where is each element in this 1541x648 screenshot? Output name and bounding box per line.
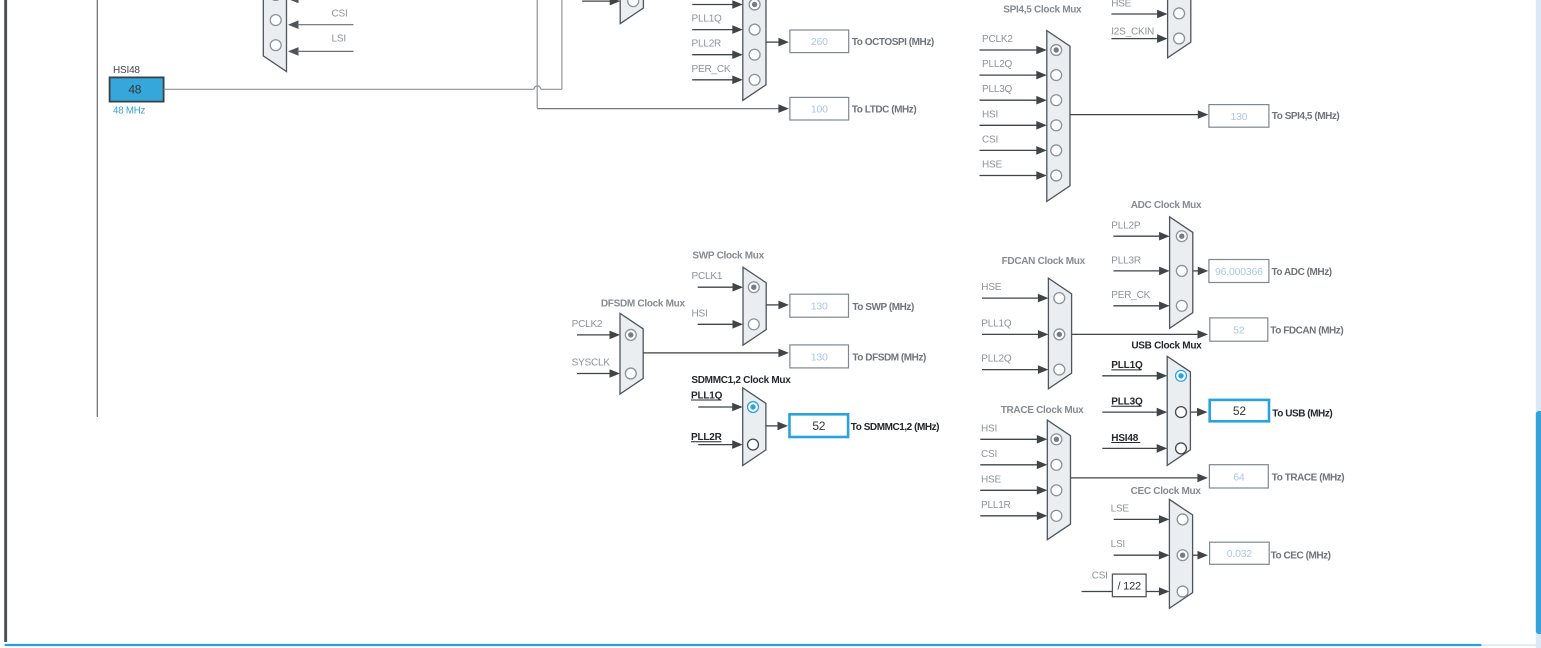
- svg-text:To LTDC (MHz): To LTDC (MHz): [852, 104, 916, 115]
- svg-text:HSE: HSE: [981, 282, 1001, 293]
- svg-text:48 MHz: 48 MHz: [113, 105, 146, 116]
- svg-text:To OCTOSPI (MHz): To OCTOSPI (MHz): [852, 37, 934, 48]
- svg-text:LSI: LSI: [1111, 539, 1125, 550]
- svg-text:SYSCLK: SYSCLK: [572, 358, 611, 369]
- svg-text:48: 48: [128, 82, 141, 96]
- svg-text:PLL3Q: PLL3Q: [982, 84, 1013, 95]
- svg-text:HSE: HSE: [981, 474, 1001, 485]
- svg-text:To CEC (MHz): To CEC (MHz): [1271, 550, 1331, 561]
- svg-text:PER_CK: PER_CK: [692, 64, 731, 75]
- svg-text:SDMMC1,2 Clock Mux: SDMMC1,2 Clock Mux: [691, 375, 791, 386]
- svg-text:52: 52: [812, 419, 825, 433]
- svg-text:LSI: LSI: [332, 34, 346, 45]
- svg-text:FDCAN Clock Mux: FDCAN Clock Mux: [1002, 256, 1086, 267]
- svg-text:SWP Clock Mux: SWP Clock Mux: [692, 250, 764, 261]
- svg-text:USB Clock Mux: USB Clock Mux: [1131, 341, 1202, 352]
- svg-text:130: 130: [811, 351, 828, 363]
- svg-text:100: 100: [811, 104, 828, 116]
- svg-text:PCLK2: PCLK2: [572, 319, 603, 330]
- svg-text:To USB (MHz): To USB (MHz): [1272, 408, 1332, 419]
- svg-text:52: 52: [1233, 324, 1245, 336]
- svg-text:PCLK1: PCLK1: [692, 271, 723, 282]
- svg-text:PLL3R: PLL3R: [1111, 255, 1141, 266]
- svg-text:HSI48: HSI48: [113, 65, 140, 76]
- svg-text:CSI: CSI: [1092, 571, 1108, 582]
- svg-text:PLL1Q: PLL1Q: [692, 14, 723, 25]
- svg-text:PLL1R: PLL1R: [981, 500, 1011, 511]
- svg-text:I2S_CKIN: I2S_CKIN: [1111, 26, 1154, 37]
- svg-text:PLL2Q: PLL2Q: [981, 354, 1012, 365]
- svg-text:To SWP (MHz): To SWP (MHz): [852, 302, 914, 313]
- svg-text:PLL1Q: PLL1Q: [981, 318, 1012, 329]
- svg-text:To TRACE (MHz): To TRACE (MHz): [1272, 473, 1345, 484]
- svg-text:To ADC (MHz): To ADC (MHz): [1272, 267, 1332, 278]
- svg-text:To SDMMC1,2 (MHz): To SDMMC1,2 (MHz): [851, 422, 939, 433]
- svg-text:260: 260: [811, 36, 828, 48]
- svg-text:CSI: CSI: [332, 8, 348, 19]
- svg-text:PCLK2: PCLK2: [982, 34, 1013, 45]
- svg-text:CSI: CSI: [982, 134, 998, 145]
- svg-text:HSI: HSI: [982, 109, 998, 120]
- svg-text:HSI: HSI: [692, 308, 708, 319]
- svg-text:SPI4,5 Clock Mux: SPI4,5 Clock Mux: [1003, 4, 1082, 15]
- svg-text:PER_CK: PER_CK: [1111, 290, 1150, 301]
- svg-text:CSI: CSI: [981, 449, 997, 460]
- svg-text:ADC Clock Mux: ADC Clock Mux: [1131, 200, 1202, 211]
- svg-text:DFSDM Clock Mux: DFSDM Clock Mux: [601, 298, 686, 309]
- svg-text:PLL2R: PLL2R: [692, 39, 722, 50]
- svg-text:52: 52: [1233, 404, 1246, 418]
- svg-text:PLL2Q: PLL2Q: [982, 59, 1013, 70]
- svg-text:/ 122: / 122: [1117, 580, 1141, 592]
- svg-text:0.032: 0.032: [1227, 548, 1253, 560]
- svg-text:130: 130: [811, 301, 828, 313]
- svg-text:CEC Clock Mux: CEC Clock Mux: [1131, 486, 1202, 497]
- svg-text:HSI: HSI: [981, 423, 997, 434]
- svg-text:PLL2P: PLL2P: [1111, 221, 1141, 232]
- svg-text:TRACE Clock Mux: TRACE Clock Mux: [1001, 405, 1084, 416]
- svg-text:To DFSDM (MHz): To DFSDM (MHz): [852, 352, 926, 363]
- svg-text:To FDCAN (MHz): To FDCAN (MHz): [1270, 326, 1343, 337]
- svg-text:To SPI4,5 (MHz): To SPI4,5 (MHz): [1272, 111, 1340, 122]
- svg-text:64: 64: [1233, 471, 1245, 483]
- svg-text:HSE: HSE: [982, 160, 1002, 171]
- svg-text:HSE: HSE: [1111, 0, 1131, 10]
- svg-text:130: 130: [1230, 111, 1247, 123]
- svg-text:LSE: LSE: [1111, 503, 1130, 514]
- svg-text:96.000366: 96.000366: [1215, 266, 1263, 278]
